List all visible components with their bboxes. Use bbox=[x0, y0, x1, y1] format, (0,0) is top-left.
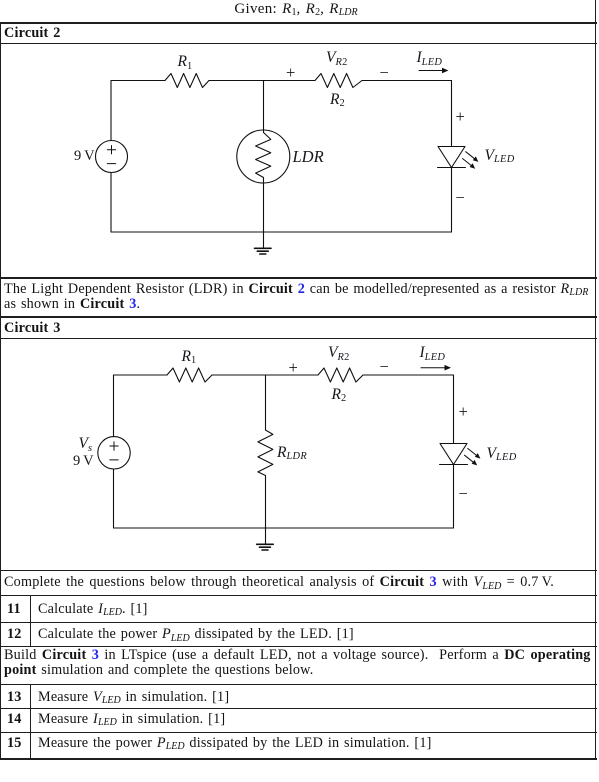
label RLDR (circuit 3) bbox=[277, 444, 307, 462]
wire: C2 top-middle (R1 to R2, node at LDR branch) bbox=[209, 80, 315, 82]
row 14 bbox=[7, 712, 22, 727]
label Vs (circuit 3) bbox=[79, 435, 93, 453]
resistor R2 (circuit 3) bbox=[318, 368, 363, 382]
resistor R1 (circuit 3) bbox=[167, 368, 212, 382]
label + (above LED, circuit 2) bbox=[456, 107, 465, 127]
wire: C2 left branch lower bbox=[110, 173, 112, 233]
label I_LED (circuit 3) bbox=[420, 344, 446, 362]
label + (left of R2, circuit 3) bbox=[289, 358, 298, 378]
ground (circuit 3) bbox=[257, 528, 274, 550]
wire: C3 right branch upper bbox=[453, 375, 455, 443]
LED (circuit 2) bbox=[438, 147, 479, 169]
wire: C2 bottom rail bbox=[111, 231, 452, 233]
wire: C3 left branch upper bbox=[113, 375, 115, 437]
header text: Given: R1, R2, RLDR bbox=[0, 2, 592, 18]
voltage source 9V (circuit 2) bbox=[96, 141, 128, 173]
label 9V (circuit 2) bbox=[74, 148, 95, 165]
label V_LED (circuit 3) bbox=[487, 445, 517, 463]
row: complete questions bbox=[4, 575, 554, 591]
label + (above LED, circuit 3) bbox=[459, 402, 468, 422]
wire: C2 right branch upper bbox=[451, 81, 453, 147]
row: build circuit 3 bbox=[4, 648, 591, 663]
resistor R2 (circuit 2) bbox=[315, 74, 362, 88]
table rules bbox=[0, 22, 597, 24]
wire: C3 middle branch upper bbox=[265, 375, 267, 430]
current arrow I_LED (circuit 3) bbox=[421, 365, 451, 371]
section header Circuit 2 bbox=[4, 26, 61, 41]
section header Circuit 3 bbox=[4, 321, 61, 336]
LED (circuit 3) bbox=[440, 444, 481, 466]
label - (right of R2, circuit 2) bbox=[380, 63, 389, 83]
label R2 (circuit 3) bbox=[332, 386, 347, 404]
label V_R2 (circuit 3) bbox=[328, 344, 350, 362]
wire: C2 left branch upper bbox=[110, 81, 112, 141]
wire: C3 bottom rail bbox=[114, 527, 454, 529]
label - (right of R2, circuit 3) bbox=[380, 357, 389, 377]
wire: C2 middle branch lower bbox=[263, 178, 265, 233]
current arrow I_LED (circuit 2) bbox=[419, 68, 449, 74]
wire: C2 right branch lower bbox=[451, 168, 453, 233]
label R1 (circuit 3) bbox=[182, 348, 197, 366]
resistor R1 (circuit 2) bbox=[165, 74, 209, 88]
label - (below LED, circuit 2) bbox=[456, 188, 465, 208]
wire: C2 top-right (R2 to LED branch) bbox=[362, 80, 452, 82]
label 9V (circuit 3) bbox=[73, 453, 94, 470]
resistor RLDR (circuit 3) bbox=[258, 430, 273, 476]
row 13 bbox=[7, 690, 22, 705]
row 15 bbox=[7, 736, 22, 751]
wire: C2 top-left (source to R1) bbox=[111, 80, 165, 82]
text row between circuits bbox=[4, 282, 588, 298]
wire: C3 left branch lower bbox=[113, 469, 115, 528]
label I_LED (circuit 2) bbox=[417, 49, 443, 67]
LDR (circuit 2) bbox=[237, 130, 290, 183]
wire: C3 right branch lower bbox=[453, 465, 455, 529]
row 11 bbox=[7, 602, 21, 617]
label R2 (circuit 2) bbox=[330, 91, 345, 109]
wire: C2 middle branch upper bbox=[263, 81, 265, 133]
label - (below LED, circuit 3) bbox=[459, 484, 468, 504]
label V_R2 (circuit 2) bbox=[326, 49, 348, 67]
wire: C3 top-right (R2 to LED branch) bbox=[363, 374, 454, 376]
voltage source Vs 9V (circuit 3) bbox=[98, 437, 130, 469]
ground (circuit 2) bbox=[255, 232, 272, 254]
wire: C3 top-left (source to R1) bbox=[114, 374, 168, 376]
label + (left of R2, circuit 2) bbox=[286, 63, 295, 83]
label V_LED (circuit 2) bbox=[485, 147, 515, 165]
label LDR (circuit 2) bbox=[293, 147, 324, 167]
row 12 bbox=[7, 627, 22, 642]
label R1 (circuit 2) bbox=[178, 53, 193, 71]
wire: C3 top-middle (R1 to R2, node at RLDR branch) bbox=[212, 374, 318, 376]
wire: C3 middle branch lower bbox=[265, 476, 267, 529]
